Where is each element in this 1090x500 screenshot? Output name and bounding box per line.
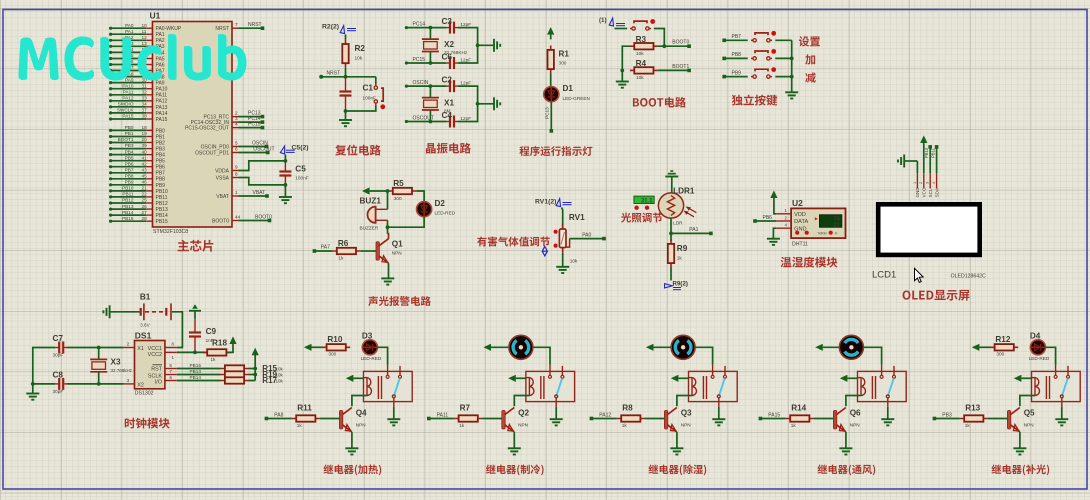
svg-text:10k: 10k — [636, 75, 644, 80]
wire BOOT0 — [658, 40, 690, 47]
label 复位电路 — [335, 145, 381, 156]
U1 pin PA11 (32) with wire — [109, 90, 167, 99]
svg-text:1k: 1k — [622, 423, 628, 428]
svg-text:300: 300 — [559, 61, 567, 66]
svg-text:PA1: PA1 — [689, 227, 698, 233]
svg-text:1k: 1k — [338, 256, 344, 261]
crystal X1 8M — [422, 86, 455, 121]
wire R1 to D1 — [550, 73, 552, 86]
svg-text:BOOT0: BOOT0 — [212, 218, 229, 224]
svg-text:BUZ1: BUZ1 — [360, 196, 382, 205]
svg-text:100nF: 100nF — [295, 176, 308, 181]
svg-text:R2(2): R2(2) — [322, 24, 339, 31]
label 继电器(制冷) — [486, 464, 544, 475]
push button PB8 — [751, 57, 753, 59]
label 时钟模块 — [125, 418, 170, 429]
svg-text:PB8: PB8 — [156, 177, 166, 183]
transistor Q5 NPN — [1007, 408, 1035, 434]
svg-text:%RH: %RH — [818, 232, 827, 236]
power arrow relay coil — [1014, 375, 1032, 382]
U1 pin PA1 (11) with wire — [109, 29, 165, 38]
wire B1 to VCC1 — [172, 312, 182, 348]
resistor R1 300 — [548, 46, 570, 74]
U1 pin PA6 (16) with wire — [109, 59, 165, 68]
wire fan to relay pin — [695, 347, 713, 364]
wire coil bottom to collector — [677, 396, 692, 407]
wire BOOT1 — [658, 64, 690, 71]
terminal PA15 — [759, 412, 781, 420]
wire C7 left — [33, 348, 55, 384]
power arrow pull-ups — [252, 348, 259, 356]
U1 pin BOOT0 (44) with wire — [212, 214, 272, 224]
svg-text:LCD1: LCD1 — [872, 270, 896, 281]
fan motor — [671, 335, 695, 359]
battery B1 3.6V — [140, 292, 171, 327]
wire emitter to ground — [1019, 432, 1021, 448]
capacitor C6 12pF — [442, 53, 472, 70]
svg-text:R14: R14 — [791, 404, 806, 413]
svg-text:PA15: PA15 — [768, 412, 780, 418]
svg-text:OSCIN: OSCIN — [413, 80, 429, 86]
junction C1 bottom — [344, 109, 348, 113]
capacitor C1 100nF — [340, 77, 376, 111]
svg-text:C2: C2 — [442, 76, 453, 85]
svg-text:C3: C3 — [442, 17, 453, 26]
wire button to rail — [775, 39, 791, 41]
svg-text:46: 46 — [142, 180, 148, 185]
svg-text:Q2: Q2 — [518, 409, 529, 418]
svg-text:R3: R3 — [636, 35, 647, 44]
svg-text:DATA: DATA — [794, 219, 808, 225]
push button PB9 — [751, 76, 753, 78]
ground relay — [550, 418, 563, 420]
U1 pin PC15-OSC32_OUT (4) with wire — [185, 121, 264, 131]
U1 pin PA2 (12) with wire — [109, 35, 165, 44]
net goto arrow R9(2) down — [662, 281, 688, 291]
terminal PA0 — [602, 237, 606, 241]
label 声光报警电路 — [368, 296, 431, 306]
U1 pin VDDA (9) — [215, 164, 238, 174]
svg-text:U1: U1 — [150, 11, 161, 21]
svg-text:B1: B1 — [140, 292, 151, 301]
wire C8 right to pin3 — [67, 383, 124, 385]
power arrow fan — [815, 344, 839, 351]
svg-text:U2: U2 — [792, 198, 803, 208]
svg-text:PA12: PA12 — [599, 412, 611, 418]
potentiometer RV1 — [554, 213, 586, 264]
wire R5 to D2 — [416, 191, 424, 202]
transistor Q4 NPN — [339, 408, 367, 434]
svg-text:300: 300 — [394, 196, 402, 201]
ground Q1 — [381, 277, 394, 279]
ground relay — [712, 418, 725, 420]
svg-text:VBAT: VBAT — [216, 194, 229, 200]
junction collector net — [386, 225, 390, 229]
wire to ground clock — [32, 384, 34, 394]
svg-text:GND: GND — [915, 187, 920, 198]
resistor R4 10k — [630, 59, 658, 80]
svg-text:DHT11: DHT11 — [792, 241, 808, 247]
svg-text:12pF: 12pF — [460, 22, 471, 27]
wire R17 to rail — [249, 380, 256, 382]
ground keys — [785, 91, 798, 93]
label key 设置 — [799, 36, 820, 46]
wire RV1 bottom to ground — [562, 253, 564, 267]
wire C6 to ground riser — [458, 45, 478, 63]
resistor R17 10k — [221, 376, 284, 385]
transistor Q3 NPN — [664, 408, 692, 434]
wire R15 to rail — [249, 368, 256, 370]
wire R7 to base — [482, 418, 502, 420]
wire coil bottom to collector — [352, 396, 367, 407]
wire button to rail — [775, 57, 791, 59]
resistor R8 1k — [617, 404, 645, 429]
U1 pin PA3 (13) with wire — [109, 41, 165, 50]
ground Q4 — [345, 447, 358, 449]
wire emitter to ground — [845, 432, 847, 448]
wire relay common to ground — [393, 407, 395, 419]
power T-bar above C9 — [189, 304, 201, 319]
svg-text:Q6: Q6 — [850, 409, 861, 418]
label 光照调节 — [621, 213, 662, 223]
wire fan to relay pin — [863, 347, 881, 364]
power arrow R18 — [229, 336, 236, 344]
U1 pin PA12 (33) with wire — [109, 96, 168, 105]
svg-text:LED-RED: LED-RED — [361, 356, 382, 361]
ground Q5 — [1013, 447, 1026, 449]
relay RL — [526, 365, 575, 407]
transistor Q6 NPN — [833, 408, 861, 434]
resistor R12 300 — [990, 335, 1018, 356]
svg-text:PB14: PB14 — [190, 375, 202, 380]
svg-text:NRST: NRST — [327, 70, 341, 76]
svg-text:PB5: PB5 — [125, 155, 134, 160]
mouse cursor — [915, 268, 924, 282]
svg-text:PB8: PB8 — [125, 174, 134, 179]
wire VCC2 row — [177, 351, 206, 353]
wire C4 to ground riser — [458, 104, 478, 122]
svg-text:12: 12 — [142, 35, 148, 40]
wire OSCIN row — [406, 85, 446, 87]
svg-text:PA11: PA11 — [123, 90, 134, 95]
ground BOOT — [616, 81, 629, 83]
ground below C5 — [279, 196, 292, 198]
svg-text:LED-RED: LED-RED — [435, 210, 456, 215]
junction ground riser — [476, 43, 480, 47]
svg-text:RV1(2): RV1(2) — [535, 199, 556, 206]
svg-text:7: 7 — [235, 22, 238, 27]
svg-text:6: 6 — [235, 146, 238, 151]
svg-text:PB12: PB12 — [156, 201, 168, 207]
svg-text:PB12: PB12 — [122, 198, 134, 203]
svg-text:SDA: SDA — [934, 187, 939, 197]
svg-text:38: 38 — [142, 114, 148, 119]
svg-text:26: 26 — [142, 204, 148, 209]
svg-text:BOOT0: BOOT0 — [672, 40, 689, 46]
terminal PB7 — [722, 34, 741, 42]
svg-text:PA8: PA8 — [274, 412, 283, 418]
svg-text:10k: 10k — [570, 259, 578, 264]
svg-text:8M: 8M — [444, 108, 451, 113]
wire OLED SCL pin — [929, 147, 931, 173]
OLED pin stubs and labels — [913, 173, 940, 197]
svg-text:LDR: LDR — [673, 221, 683, 226]
U1 pin PB0 (18) with wire — [109, 125, 165, 134]
capacitor C7 30pF — [53, 334, 68, 358]
ground clock — [26, 393, 39, 395]
junction X3 top — [97, 346, 101, 350]
wire C2 to ground riser — [458, 86, 478, 104]
ground relay — [1055, 418, 1068, 420]
wire PB6 to DATA — [755, 220, 776, 222]
power arrow above R1 — [547, 27, 554, 39]
capacitor C3 12pF — [442, 17, 472, 33]
svg-text:X1: X1 — [444, 98, 454, 107]
relay RL — [1032, 365, 1081, 407]
svg-text:BOOT1: BOOT1 — [118, 137, 134, 142]
power arrow DHT11 — [770, 190, 777, 213]
svg-text:PB9: PB9 — [125, 180, 134, 185]
svg-text:D4: D4 — [1030, 331, 1041, 340]
svg-text:R9: R9 — [677, 244, 688, 253]
svg-text:PC15: PC15 — [413, 57, 426, 63]
svg-text:42: 42 — [142, 161, 148, 166]
label BOOT电路 — [633, 97, 686, 107]
label 温湿度模块 — [781, 257, 838, 268]
svg-text:X1: X1 — [137, 346, 144, 352]
DHT11 module U2 — [776, 198, 845, 247]
svg-text:R2: R2 — [355, 44, 366, 53]
wire R2 bottom to junction — [345, 68, 347, 77]
svg-text:PB14: PB14 — [156, 213, 168, 219]
U1 pin PA5 (15) with wire — [109, 53, 165, 62]
svg-text:DS1302: DS1302 — [135, 391, 154, 397]
capacitor C9 1nF — [189, 319, 217, 353]
ground DHT11 — [767, 238, 780, 240]
label 有害气体值调节 — [477, 237, 550, 247]
wire R3/R4 left rail — [622, 46, 630, 81]
label 程序运行指示灯 — [519, 146, 592, 156]
wire C5 to ground — [284, 185, 286, 197]
transistor Q2 NPN — [502, 408, 530, 434]
resistor R5 300 — [388, 179, 416, 201]
buzzer BUZ1 — [360, 196, 388, 230]
wire OLED VCC pin — [923, 161, 925, 173]
wire emitter to ground — [676, 432, 678, 448]
U1 pin OSCIN_PD0 (5) with wire — [201, 140, 269, 150]
wire PB3 to R13 — [934, 418, 959, 420]
svg-text:NPN: NPN — [392, 250, 402, 255]
wire coil bottom to collector — [1020, 396, 1035, 407]
junction C5 top — [284, 159, 288, 163]
ground relay — [881, 418, 894, 420]
ground RV1 — [556, 266, 569, 268]
svg-text:44: 44 — [235, 214, 241, 219]
ground reset — [339, 119, 352, 121]
svg-text:RV1: RV1 — [569, 213, 585, 222]
svg-text:D1: D1 — [563, 84, 574, 93]
svg-text:R5: R5 — [393, 179, 404, 188]
ground OLED (rotated) — [898, 155, 917, 168]
terminal SDA (PB11) — [931, 145, 939, 158]
label 继电器(通风) — [817, 464, 875, 475]
U1 pin PB6 (42) with wire — [109, 161, 165, 170]
resistor R10 300 — [322, 335, 350, 356]
svg-text:SCL: SCL — [928, 188, 933, 197]
svg-text:LDR1: LDR1 — [673, 187, 695, 196]
svg-text:PA6: PA6 — [156, 62, 165, 68]
svg-text:1k: 1k — [791, 423, 797, 428]
wire R8 to base — [645, 418, 665, 420]
junction PA1 — [669, 232, 673, 236]
label key 加 — [805, 54, 815, 64]
svg-text:R11: R11 — [297, 404, 312, 413]
svg-text:Q4: Q4 — [356, 409, 367, 418]
label 继电器(补光) — [991, 464, 1049, 475]
resistor R11 1k — [292, 404, 320, 429]
svg-text:19: 19 — [142, 131, 148, 136]
wire R13 to base — [988, 418, 1008, 420]
wire supply to buzzer top — [387, 191, 389, 209]
power arrow relay coil — [671, 375, 689, 382]
svg-text:OSCOUT: OSCOUT — [253, 147, 274, 153]
power arrow R10 — [304, 344, 323, 351]
resistor R9 1k — [668, 240, 688, 268]
terminal PA1 — [709, 232, 713, 236]
wire RV1 top — [562, 208, 563, 229]
wire D2 to collector net — [388, 217, 425, 228]
svg-text:PB4: PB4 — [156, 153, 166, 159]
svg-text:22: 22 — [142, 192, 148, 197]
svg-text:PA10: PA10 — [156, 87, 168, 93]
terminal PA11 — [427, 412, 448, 420]
svg-text:10k: 10k — [636, 51, 644, 56]
svg-text:PB8: PB8 — [732, 52, 742, 58]
svg-text:37: 37 — [142, 108, 148, 113]
svg-text:R9(2): R9(2) — [673, 281, 688, 288]
svg-text:PA12: PA12 — [156, 99, 168, 105]
U1 pin BOOT1 (20) with wire — [109, 137, 165, 146]
svg-text:X2: X2 — [137, 382, 144, 388]
wire OLED SDA pin — [936, 147, 938, 173]
svg-text:VDDA: VDDA — [215, 168, 230, 174]
svg-text:BOOT1: BOOT1 — [672, 64, 689, 70]
wire PA15 to R14 — [760, 418, 785, 420]
wire LED to relay pin — [1046, 347, 1056, 364]
svg-text:10k: 10k — [276, 379, 284, 384]
main chip U1 STM32F103C8 — [150, 11, 233, 236]
junction R5 left — [386, 189, 390, 193]
svg-text:1k: 1k — [459, 423, 465, 428]
wire fan to relay pin — [533, 347, 550, 364]
svg-text:PB13: PB13 — [190, 369, 202, 374]
svg-text:C5: C5 — [295, 165, 306, 174]
wire R2 top — [345, 35, 347, 40]
svg-text:32.768KHz: 32.768KHz — [444, 50, 468, 55]
svg-text:PB7: PB7 — [732, 34, 742, 40]
U1 pin PB12 (25) with wire — [109, 198, 168, 207]
svg-text:32: 32 — [142, 90, 148, 95]
U1 pin PB11 (22) with wire — [109, 192, 168, 201]
label 晶振电路 — [426, 143, 471, 154]
svg-text:R13: R13 — [965, 404, 980, 413]
capacitor C2 12pF — [442, 76, 472, 93]
svg-text:X3: X3 — [111, 358, 121, 367]
wire relay common to ground — [718, 407, 720, 419]
U1 pin PC14-OSC32_IN (3) with wire — [191, 116, 265, 126]
U1 pin PB9 (46) with wire — [109, 180, 165, 189]
U1 pin PB7 (43) with wire — [109, 167, 165, 176]
svg-text:1k: 1k — [677, 256, 683, 261]
svg-text:PB13: PB13 — [122, 204, 134, 209]
wire R14 to base — [814, 418, 834, 420]
svg-text:R18: R18 — [212, 338, 227, 347]
terminal PC13 — [550, 129, 554, 133]
wire R18 to power arrow — [227, 344, 233, 352]
net goto arrow (1) at BOOT button — [599, 17, 625, 28]
wire R6 to base — [360, 250, 376, 252]
svg-text:Q5: Q5 — [1024, 409, 1035, 418]
wire emitter to ground — [351, 432, 353, 448]
LED D10 LED-RED — [361, 331, 382, 361]
svg-text:1k: 1k — [965, 423, 971, 428]
resistor R13 1k — [960, 404, 988, 429]
svg-text:12pF: 12pF — [460, 81, 471, 86]
relay RL — [364, 365, 413, 407]
svg-text:C1: C1 — [363, 84, 374, 93]
node PC15 — [405, 57, 425, 65]
svg-text:PA1: PA1 — [156, 32, 165, 38]
svg-text:8: 8 — [235, 171, 238, 176]
svg-text:PA11: PA11 — [437, 412, 449, 418]
junction rail PB9 — [790, 75, 794, 79]
U1 pin SWDIO (34) with wire — [109, 102, 168, 111]
svg-text:32.768kHz: 32.768kHz — [111, 368, 133, 373]
svg-text:PA0: PA0 — [125, 23, 134, 28]
svg-text:PA10: PA10 — [122, 83, 134, 88]
svg-text:OLED128642C: OLED128642C — [951, 274, 986, 280]
wire keys rail — [791, 40, 793, 92]
svg-text:300: 300 — [328, 351, 336, 356]
label OLED显示屏 — [903, 290, 970, 301]
fan motor — [839, 335, 863, 359]
ground Q2 — [508, 447, 521, 449]
wire to ground — [345, 111, 347, 120]
wire button top — [375, 77, 377, 84]
svg-text:12pF: 12pF — [460, 116, 471, 121]
junction R2/C1 — [344, 75, 348, 79]
svg-text:2: 2 — [235, 110, 238, 115]
ground Q6 — [839, 447, 852, 449]
wire PB13 row — [177, 369, 221, 375]
svg-text:25: 25 — [142, 198, 148, 203]
svg-text:21: 21 — [142, 186, 148, 191]
svg-text:PC14: PC14 — [413, 22, 426, 28]
svg-text:300: 300 — [996, 351, 1004, 356]
svg-text:1k: 1k — [211, 357, 217, 362]
svg-text:PB7: PB7 — [125, 167, 134, 172]
svg-text:PB6: PB6 — [156, 165, 166, 171]
svg-text:VCC2: VCC2 — [148, 352, 162, 358]
U1 pin PA7 (17) with wire — [109, 65, 165, 74]
svg-text:VSSA: VSSA — [216, 175, 230, 181]
U1 pin PA9 (30) with wire — [109, 77, 165, 86]
svg-text:0: 0 — [835, 231, 837, 235]
svg-text:VCC: VCC — [922, 187, 927, 197]
svg-text:PB14: PB14 — [122, 210, 134, 215]
svg-text:Q1: Q1 — [392, 240, 403, 249]
svg-text:PB1: PB1 — [125, 131, 134, 136]
